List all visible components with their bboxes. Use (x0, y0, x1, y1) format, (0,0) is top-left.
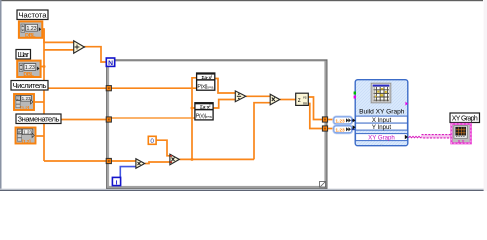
svg-text:XY Graph: XY Graph (452, 115, 478, 122)
svg-text:im: im (303, 100, 308, 105)
svg-text:⌄: ⌄ (380, 141, 384, 146)
svg-text:Знаменатель: Знаменатель (18, 114, 60, 123)
svg-text:1.23: 1.23 (22, 96, 31, 101)
svg-text:i: i (116, 179, 118, 186)
svg-text:P(x)|ₓ₌ₐ: P(x)|ₓ₌ₐ (197, 84, 214, 90)
svg-text:DBL: DBL (25, 33, 36, 39)
svg-text:P(x)|ₓ₌ₐ: P(x)|ₓ₌ₐ (196, 114, 213, 120)
svg-text:N: N (108, 60, 113, 67)
svg-text:Частота: Частота (19, 10, 48, 19)
svg-text:X.Y: X.Y (458, 139, 465, 144)
svg-text:Числитель: Числитель (13, 81, 47, 90)
svg-text:1.23: 1.23 (27, 26, 37, 32)
svg-text:z: z (298, 98, 301, 104)
svg-text:Build XY Graph: Build XY Graph (359, 108, 405, 115)
svg-text:[1.2]: [1.2] (20, 106, 29, 112)
svg-text:1.23: 1.23 (335, 119, 345, 125)
svg-text:1.23: 1.23 (25, 65, 35, 71)
svg-text:[1.2]: [1.2] (22, 139, 31, 145)
svg-text:0: 0 (150, 138, 154, 145)
svg-text:1.23: 1.23 (335, 128, 345, 134)
svg-text:DBL: DBL (23, 72, 34, 78)
svg-text:1.23: 1.23 (23, 130, 32, 135)
svg-text:Шаг: Шаг (17, 50, 29, 59)
svg-text:Y Input: Y Input (372, 124, 392, 131)
svg-text:XY Graph: XY Graph (368, 134, 395, 141)
